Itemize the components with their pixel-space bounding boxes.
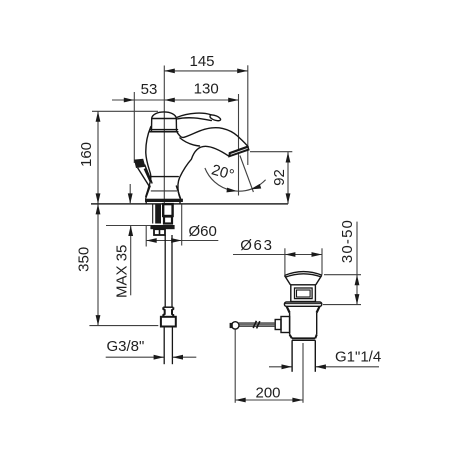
handle dome cap <box>152 112 177 119</box>
body left side <box>146 127 151 197</box>
svg-text:92: 92 <box>271 169 288 186</box>
drain body bottom <box>290 335 317 339</box>
350 arrows <box>96 204 101 215</box>
dia60 arrows <box>146 238 157 243</box>
200 arrows <box>235 398 246 403</box>
svg-text:30-50: 30-50 <box>339 219 356 263</box>
extension line lever tip x134 <box>133 92 135 163</box>
side lever <box>134 159 152 187</box>
G3/8 fitting <box>161 307 176 364</box>
MAX 35 nut line <box>106 225 150 227</box>
dia63 dimension line <box>233 254 322 256</box>
arrowheads <box>96 69 360 403</box>
svg-text:145: 145 <box>189 53 214 70</box>
escutcheon base <box>145 186 183 204</box>
rod ball nub <box>230 323 233 328</box>
svg-text:Ø60: Ø60 <box>189 223 217 240</box>
svg-text:53: 53 <box>141 81 158 98</box>
200 right extension / drain centerline <box>302 343 304 403</box>
mounting nut <box>150 225 174 229</box>
cartridge shank <box>153 204 173 224</box>
92 top extension <box>250 151 292 153</box>
dia63 right extension <box>321 248 323 274</box>
drain neck with window <box>291 285 316 302</box>
svg-text:MAX 35: MAX 35 <box>113 245 130 298</box>
svg-text:G3/8": G3/8" <box>107 338 145 355</box>
20deg arc arrows <box>227 188 238 194</box>
dome band lines <box>150 129 177 131</box>
drain flange <box>284 302 321 306</box>
hose nut block <box>154 229 165 235</box>
53 arrows outside <box>124 98 135 103</box>
30-50 dimension line <box>356 222 358 305</box>
drain body <box>289 313 291 335</box>
drain tailpipe <box>291 340 293 372</box>
svg-text:160: 160 <box>78 142 95 167</box>
dia60 dimension line <box>146 240 218 242</box>
svg-text:130: 130 <box>194 81 219 98</box>
spout top edge <box>177 128 248 147</box>
rod port <box>281 317 290 333</box>
svg-text:200: 200 <box>255 385 280 402</box>
extension line spout end x247.8 <box>247 65 249 165</box>
extension line top of faucet <box>92 110 158 112</box>
extension line bottom G3/8 <box>89 325 158 327</box>
deck line <box>91 203 288 205</box>
supply hose dark bar <box>155 204 161 224</box>
20deg arc <box>205 168 266 191</box>
dia60 right extension <box>181 205 183 246</box>
MAX 35 upper leader <box>129 184 131 204</box>
20deg slanted reference line <box>240 156 254 193</box>
G1 1/4 arrows <box>282 364 293 369</box>
145 arrows <box>164 69 175 74</box>
dimension 200 line <box>235 399 303 401</box>
svg-text:350: 350 <box>76 247 93 272</box>
lever tip loop <box>210 115 221 121</box>
G3/8 arrows <box>154 355 165 360</box>
rod ball end <box>232 322 239 329</box>
130 arrows <box>228 98 239 103</box>
faucet outline <box>146 112 249 201</box>
spout underside big curve <box>178 146 229 200</box>
locknut <box>287 306 320 312</box>
pop-up drain cap <box>275 272 322 372</box>
30-50 arrows <box>355 275 360 286</box>
rod break symbol <box>253 321 260 329</box>
dimension 160-350 vertical line <box>97 111 99 204</box>
160 arrows <box>96 111 101 122</box>
lever blade bottom edge <box>177 118 212 121</box>
MAX35 arrows <box>128 193 133 204</box>
dia60 left extension <box>145 226 147 247</box>
svg-text:G1"1/4: G1"1/4 <box>335 349 381 366</box>
spout inner rim <box>180 138 200 146</box>
svg-text:Ø63: Ø63 <box>240 237 273 254</box>
dimension 53-130 line <box>112 99 185 101</box>
dimension 145 line <box>164 70 247 72</box>
dimension 92 line <box>287 152 289 204</box>
dome shoulder line <box>152 118 177 120</box>
30-50 top extension <box>324 274 361 276</box>
dia63 arrows <box>285 252 296 257</box>
dome cap sides <box>152 119 177 131</box>
aerator outlet <box>229 146 249 156</box>
G3/8 leader line <box>106 356 164 358</box>
200 left extension from ball <box>234 329 236 403</box>
30-50 bottom extension <box>323 304 361 306</box>
92 arrows <box>286 152 291 163</box>
supply tube <box>165 235 172 307</box>
extension line spout x238.5 <box>238 94 240 196</box>
lever blade top edge <box>176 113 211 117</box>
G1 1/4 leader line <box>269 366 292 368</box>
pop-up rod <box>239 323 275 327</box>
MAX 35 underline leader <box>130 226 132 296</box>
body section line <box>149 176 179 178</box>
extension line axis x164 <box>163 66 165 204</box>
dia63 left extension <box>284 248 286 274</box>
